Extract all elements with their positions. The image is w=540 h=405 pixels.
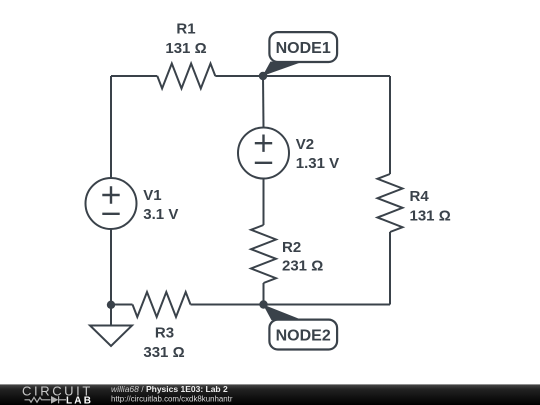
wire left vertical top (corner to V1) — [110, 76, 112, 178]
svg-text:231 Ω: 231 Ω — [282, 258, 323, 275]
node label NODE2 tail — [263, 305, 299, 321]
svg-text:1.31 V: 1.31 V — [296, 155, 339, 172]
wire R2 to NODE2 junction — [263, 283, 265, 305]
ground stub — [110, 305, 112, 326]
voltage source V1 — [86, 178, 137, 229]
svg-text:131 Ω: 131 Ω — [165, 40, 206, 57]
voltage source V2 — [238, 128, 289, 179]
ground symbol — [90, 326, 132, 347]
wire top horizontal left (corner to R1) — [111, 75, 157, 77]
wire NODE1 junction down to V2 — [262, 76, 265, 128]
footer logo resistor-diode glyph — [25, 396, 67, 403]
wire R4 to bottom-right corner — [389, 232, 391, 305]
svg-text:3.1 V: 3.1 V — [143, 206, 178, 223]
resistor R4 — [378, 174, 403, 232]
svg-text:R4: R4 — [410, 188, 430, 205]
node NODE2 junction dot — [259, 300, 267, 308]
resistor R2 — [251, 225, 276, 283]
wire V2 to R2 — [263, 179, 265, 226]
svg-text:R1: R1 — [176, 20, 195, 37]
node NODE1 junction dot — [259, 72, 267, 80]
svg-text:R3: R3 — [155, 324, 174, 341]
ground junction dot — [107, 301, 115, 309]
svg-text:LAB: LAB — [66, 395, 93, 405]
wire bottom horizontal right (NODE2 to corner) — [264, 304, 391, 306]
svg-text:131 Ω: 131 Ω — [410, 207, 451, 224]
node label NODE1 bubble — [269, 32, 337, 62]
svg-text:V1: V1 — [143, 187, 161, 204]
svg-text:http://circuitlab.com/cxdk8kun: http://circuitlab.com/cxdk8kunhantr — [111, 394, 233, 403]
svg-text:R2: R2 — [282, 239, 301, 256]
svg-text:NODE2: NODE2 — [276, 327, 331, 344]
svg-text:willia68 / Physics 1E03: Lab 2: willia68 / Physics 1E03: Lab 2 — [111, 384, 228, 394]
wire NODE1 junction to top-right corner — [263, 75, 390, 77]
node label NODE1 tail — [263, 62, 300, 77]
svg-text:V2: V2 — [296, 136, 314, 153]
svg-text:NODE1: NODE1 — [276, 40, 331, 57]
wire bottom-left junction to R3 — [111, 304, 133, 306]
wire V1 to bottom-left junction — [110, 229, 112, 305]
resistor R1 — [157, 64, 215, 89]
wire R1 to NODE1 junction — [215, 75, 263, 77]
wire R3 to NODE2 junction — [191, 304, 264, 306]
resistor R3 — [133, 292, 191, 317]
node label NODE2 bubble — [269, 320, 337, 350]
svg-text:331 Ω: 331 Ω — [143, 344, 184, 361]
wire right vertical top (corner to R4) — [389, 76, 391, 174]
